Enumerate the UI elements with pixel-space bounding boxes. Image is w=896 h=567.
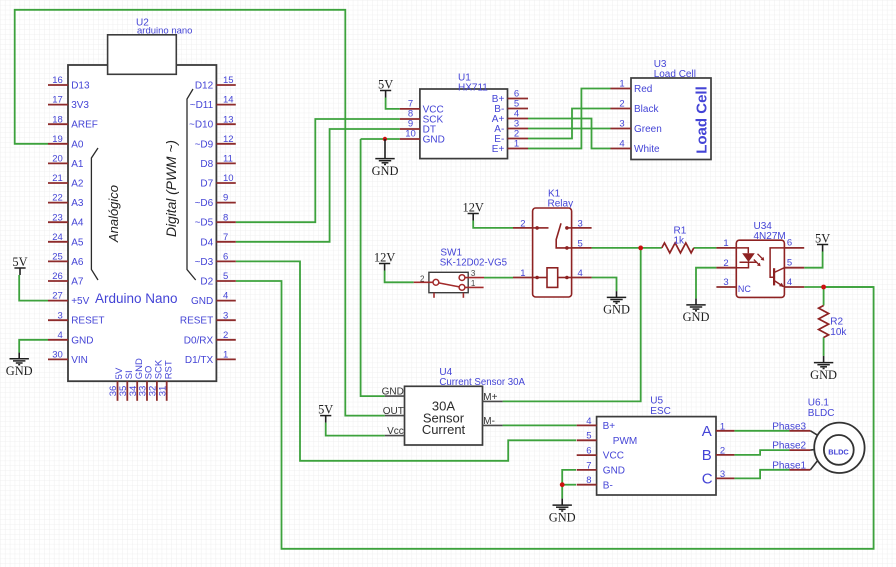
- svg-text:8: 8: [586, 475, 591, 486]
- svg-text:5V: 5V: [12, 255, 27, 269]
- svg-text:6: 6: [223, 252, 228, 263]
- svg-text:ESC: ESC: [650, 406, 671, 417]
- svg-text:5: 5: [223, 271, 228, 282]
- svg-text:~D6: ~D6: [195, 198, 214, 209]
- svg-text:24: 24: [52, 232, 63, 243]
- svg-text:4: 4: [586, 416, 591, 427]
- svg-text:4: 4: [578, 268, 583, 279]
- svg-text:16: 16: [52, 75, 63, 86]
- svg-text:M-: M-: [483, 416, 495, 427]
- svg-text:D12: D12: [195, 81, 214, 92]
- svg-text:AREF: AREF: [71, 120, 98, 131]
- svg-text:2: 2: [420, 274, 425, 283]
- svg-text:A4: A4: [71, 218, 84, 229]
- svg-text:19: 19: [52, 134, 63, 145]
- svg-text:18: 18: [52, 114, 63, 125]
- svg-text:D4: D4: [200, 237, 213, 248]
- svg-text:2: 2: [723, 258, 728, 269]
- svg-text:2: 2: [619, 99, 624, 110]
- svg-text:1: 1: [520, 268, 525, 279]
- svg-text:5V: 5V: [815, 231, 830, 245]
- svg-text:B-: B-: [603, 480, 613, 491]
- svg-text:Digital (PWM ~): Digital (PWM ~): [164, 140, 179, 237]
- svg-text:D13: D13: [71, 81, 90, 92]
- svg-text:A1: A1: [71, 159, 84, 170]
- svg-text:BLDC: BLDC: [828, 447, 849, 456]
- svg-text:1: 1: [471, 279, 476, 288]
- svg-text:5: 5: [586, 431, 591, 442]
- svg-text:BLDC: BLDC: [808, 408, 835, 419]
- svg-text:3: 3: [471, 269, 476, 278]
- svg-text:15: 15: [223, 75, 234, 86]
- svg-text:1: 1: [223, 350, 228, 361]
- svg-text:SK-12D02-VG5: SK-12D02-VG5: [440, 257, 507, 268]
- svg-text:D1/TX: D1/TX: [185, 355, 214, 366]
- svg-text:2: 2: [520, 218, 525, 229]
- svg-text:D7: D7: [200, 179, 213, 190]
- svg-text:2: 2: [223, 330, 228, 341]
- svg-text:27: 27: [52, 291, 63, 302]
- svg-text:4: 4: [619, 139, 624, 150]
- svg-text:Analógico: Analógico: [106, 185, 121, 243]
- svg-text:A5: A5: [71, 237, 84, 248]
- svg-text:31: 31: [157, 386, 168, 397]
- svg-text:4: 4: [58, 330, 63, 341]
- svg-text:D2: D2: [200, 277, 213, 288]
- svg-text:A: A: [702, 423, 712, 440]
- svg-text:8: 8: [223, 212, 228, 223]
- svg-text:5: 5: [787, 258, 792, 269]
- svg-text:GND: GND: [603, 466, 625, 477]
- svg-text:PWM: PWM: [613, 436, 637, 447]
- svg-text:R2: R2: [830, 317, 843, 328]
- svg-text:22: 22: [52, 193, 63, 204]
- svg-text:GND: GND: [810, 368, 837, 382]
- svg-text:GND: GND: [549, 510, 576, 524]
- svg-text:C: C: [702, 470, 713, 487]
- svg-text:~D9: ~D9: [195, 139, 214, 150]
- svg-text:5V: 5V: [378, 77, 393, 91]
- svg-text:A3: A3: [71, 198, 84, 209]
- svg-text:U6.1: U6.1: [808, 397, 830, 408]
- svg-text:GND: GND: [372, 164, 399, 178]
- svg-text:5V: 5V: [318, 402, 333, 416]
- svg-text:Green: Green: [634, 124, 662, 135]
- svg-text:2: 2: [720, 445, 725, 456]
- svg-text:arduino nano: arduino nano: [137, 26, 192, 37]
- svg-text:13: 13: [223, 114, 234, 125]
- svg-text:~D3: ~D3: [195, 257, 214, 268]
- svg-text:M+: M+: [483, 392, 497, 403]
- svg-text:NC: NC: [738, 284, 751, 294]
- svg-text:RESET: RESET: [71, 316, 104, 327]
- svg-text:21: 21: [52, 173, 63, 184]
- svg-text:Load Cell: Load Cell: [694, 86, 711, 154]
- svg-text:D0/RX: D0/RX: [184, 335, 214, 346]
- svg-text:Current: Current: [422, 422, 466, 437]
- svg-text:7: 7: [586, 460, 591, 471]
- svg-text:Black: Black: [634, 104, 659, 115]
- svg-text:U5: U5: [650, 395, 663, 406]
- svg-text:3: 3: [223, 310, 228, 321]
- svg-text:3: 3: [723, 277, 728, 288]
- svg-text:GND: GND: [191, 296, 213, 307]
- svg-text:23: 23: [52, 212, 63, 223]
- svg-text:10: 10: [405, 129, 416, 140]
- svg-text:12: 12: [223, 134, 234, 145]
- svg-text:26: 26: [52, 271, 63, 282]
- svg-text:A7: A7: [71, 277, 84, 288]
- svg-text:1: 1: [514, 139, 519, 150]
- svg-text:11: 11: [223, 154, 233, 165]
- svg-text:GND: GND: [71, 335, 93, 346]
- svg-text:~D11: ~D11: [190, 100, 214, 111]
- svg-text:VCC: VCC: [603, 451, 624, 462]
- svg-text:12V: 12V: [374, 250, 395, 264]
- svg-text:30: 30: [52, 350, 63, 361]
- svg-text:~D10: ~D10: [189, 120, 214, 131]
- svg-text:OUT: OUT: [383, 406, 404, 417]
- svg-text:GND: GND: [6, 364, 33, 378]
- svg-text:A6: A6: [71, 257, 84, 268]
- svg-text:4: 4: [223, 291, 228, 302]
- svg-text:GND: GND: [603, 303, 630, 317]
- svg-text:A2: A2: [71, 179, 84, 190]
- svg-text:GND: GND: [423, 135, 445, 146]
- svg-text:RESET: RESET: [180, 316, 213, 327]
- svg-text:1: 1: [723, 238, 728, 249]
- svg-text:3: 3: [578, 218, 583, 229]
- svg-text:RST: RST: [163, 360, 174, 379]
- svg-text:14: 14: [223, 95, 234, 106]
- svg-text:1: 1: [619, 79, 624, 90]
- svg-text:10k: 10k: [830, 327, 847, 338]
- svg-text:20: 20: [52, 154, 63, 165]
- svg-text:9: 9: [223, 193, 228, 204]
- svg-text:12V: 12V: [463, 200, 484, 214]
- svg-text:GND: GND: [382, 387, 404, 398]
- svg-text:B+: B+: [603, 421, 616, 432]
- svg-text:7: 7: [223, 232, 228, 243]
- svg-text:Phase1: Phase1: [772, 460, 806, 471]
- svg-text:VIN: VIN: [71, 355, 88, 366]
- svg-text:Phase3: Phase3: [772, 421, 806, 432]
- svg-text:1: 1: [720, 421, 725, 432]
- svg-text:3: 3: [58, 310, 63, 321]
- svg-text:HX711: HX711: [458, 82, 488, 93]
- svg-text:6: 6: [787, 238, 792, 249]
- svg-text:Arduino Nano: Arduino Nano: [95, 291, 178, 306]
- svg-text:5: 5: [578, 238, 583, 249]
- svg-text:E+: E+: [492, 144, 505, 155]
- svg-text:~D5: ~D5: [195, 218, 214, 229]
- svg-text:GND: GND: [683, 310, 710, 324]
- svg-text:Vcc: Vcc: [387, 426, 404, 437]
- svg-text:1k: 1k: [674, 235, 686, 246]
- svg-text:6: 6: [586, 446, 591, 457]
- svg-text:4: 4: [787, 277, 792, 288]
- svg-text:B: B: [702, 447, 712, 464]
- svg-text:Phase2: Phase2: [772, 441, 806, 452]
- svg-text:A0: A0: [71, 139, 84, 150]
- svg-text:White: White: [634, 144, 660, 155]
- svg-text:3: 3: [720, 469, 725, 480]
- svg-text:3V3: 3V3: [71, 100, 89, 111]
- svg-text:17: 17: [52, 95, 63, 106]
- svg-text:Load Cell: Load Cell: [654, 69, 696, 80]
- svg-text:25: 25: [52, 252, 63, 263]
- svg-text:D8: D8: [200, 159, 213, 170]
- svg-text:+5V: +5V: [71, 296, 89, 307]
- svg-text:3: 3: [619, 119, 624, 130]
- svg-text:10: 10: [223, 173, 234, 184]
- svg-text:Red: Red: [634, 84, 652, 95]
